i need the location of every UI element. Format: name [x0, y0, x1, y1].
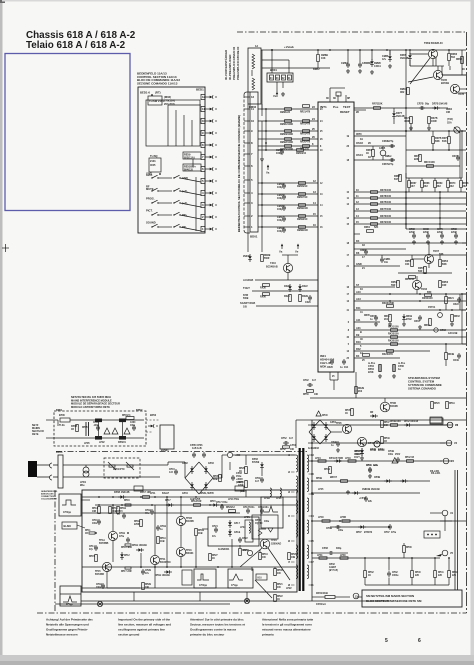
- resistor RM6B/10K: [317, 50, 319, 54]
- svg-text:RP52: RP52: [280, 449, 286, 451]
- wire rail y497: [82, 496, 297, 498]
- svg-text:BP01: BP01: [56, 408, 63, 412]
- svg-text:GPL7: GPL7: [234, 523, 241, 525]
- svg-text:100R: 100R: [431, 121, 437, 123]
- svg-text:RP41: RP41: [438, 571, 444, 574]
- wire sec row V2 y461: [312, 460, 442, 462]
- svg-text:220R: 220R: [134, 524, 140, 526]
- capacitor CP22: [238, 538, 242, 540]
- svg-text:GR05: GR05: [379, 148, 386, 150]
- svg-text:100n: 100n: [130, 425, 136, 427]
- wire bottom rail y601: [81, 600, 390, 602]
- wire right link verticals: [461, 131, 463, 178]
- wire row y150 right: [406, 149, 466, 151]
- svg-text:BC63B: BC63B: [390, 406, 398, 408]
- wire vertical right x460 low: [459, 294, 461, 310]
- svg-text:+300V: +300V: [236, 479, 243, 481]
- wire A13 row: [354, 300, 466, 302]
- svg-text:RP36: RP36: [277, 570, 283, 572]
- svg-text:DR7B 1N4148: DR7B 1N4148: [432, 103, 448, 106]
- svg-text:SISTEMA COMANDO: SISTEMA COMANDO: [408, 387, 437, 391]
- svg-text:CP02: CP02: [303, 380, 309, 382]
- svg-text:CP1B: CP1B: [160, 526, 166, 528]
- svg-text:S2000AD: S2000AD: [271, 543, 281, 546]
- svg-text:1R: 1R: [71, 429, 74, 431]
- svg-text:3P: 3P: [347, 96, 350, 100]
- capacitor CR22 right col: [457, 298, 461, 300]
- diode DR65 1N4148: [409, 50, 411, 54]
- svg-text:LP3B: LP3B: [340, 517, 346, 519]
- svg-text:RM1B/1D: RM1B/1D: [297, 207, 308, 210]
- resistor RP25 22K: [239, 549, 242, 556]
- ground sym row: [261, 157, 263, 159]
- svg-text:CR08//27p: CR08//27p: [382, 141, 394, 143]
- resistor RR20/470: [303, 138, 310, 141]
- svg-text:RK77/100: RK77/100: [380, 208, 392, 211]
- svg-text:DR77: DR77: [396, 113, 403, 115]
- transistor TR03: [412, 280, 421, 289]
- svg-text:RP15: RP15: [89, 556, 95, 558]
- svg-text:IC05: IC05: [150, 163, 156, 167]
- LDR RY02: [454, 127, 460, 133]
- wire row y527 sub: [330, 526, 390, 528]
- wire IC pin 12 row: [354, 203, 466, 205]
- svg-text:LP2B: LP2B: [264, 498, 270, 500]
- netzfilter dashed box: [54, 411, 146, 446]
- resistor RK25 47K: [363, 354, 370, 357]
- svg-text:150u: 150u: [236, 476, 242, 478]
- svg-text:1KB: 1KB: [160, 541, 165, 543]
- svg-text:RP34: RP34: [262, 553, 268, 556]
- svg-text:B17: B17: [394, 179, 399, 181]
- transistor TP15 BC546B: [102, 562, 111, 571]
- svg-text:4x1N4003: 4x1N4003: [308, 447, 320, 450]
- resistor RX06: [263, 293, 270, 296]
- wire AU-RGB: [255, 279, 318, 281]
- svg-text:CP41: CP41: [366, 464, 372, 467]
- svg-text:RR54: RR54: [442, 260, 449, 263]
- wire D9 row: [354, 336, 466, 338]
- transistor TP05: [342, 424, 351, 433]
- svg-text:D10: D10: [356, 340, 361, 344]
- capacitor CP10 10n: [260, 509, 264, 511]
- svg-text:AU-RGB: AU-RGB: [243, 278, 253, 282]
- capacitor CM1B/100p: [282, 184, 286, 186]
- transistor TP11 BC327/40: [150, 555, 159, 564]
- coil LP43 row: [348, 460, 356, 462]
- svg-text:DP17: DP17: [165, 500, 171, 502]
- frame left dash-dot line lower: [54, 490, 56, 613]
- capacitor CP48 1u: [336, 442, 340, 444]
- diode DP15: [213, 503, 216, 507]
- wire IC pin 10 row: [354, 191, 466, 193]
- svg-text:RM22/100K: RM22/100K: [280, 141, 293, 144]
- svg-text:1R: 1R: [85, 533, 88, 535]
- capacitor CR72: [456, 156, 460, 158]
- diode 1N4148 vertical: [248, 256, 252, 259]
- small box PD: [430, 417, 442, 423]
- wire pin D6 row: [354, 254, 466, 256]
- wire mains input lower: [46, 437, 56, 439]
- svg-text:DP40: DP40: [322, 414, 328, 417]
- svg-text:47u: 47u: [145, 512, 149, 515]
- svg-text:52K: 52K: [378, 103, 383, 106]
- svg-text:DP4B/10R: DP4B/10R: [390, 420, 401, 423]
- resistor RP36 vertical: [403, 546, 406, 553]
- svg-text:RP49: RP49: [384, 437, 390, 440]
- wire box bottom drops: [133, 592, 135, 601]
- svg-text:1K: 1K: [239, 471, 242, 473]
- svg-text:TR7B: TR7B: [458, 94, 464, 96]
- svg-text:D11: D11: [356, 306, 361, 310]
- diode DP1B 1N4148 top: [120, 495, 123, 499]
- svg-text:TP1B: TP1B: [186, 518, 192, 520]
- resistor RX30: [263, 284, 270, 287]
- svg-text:CR22: CR22: [453, 304, 459, 306]
- resistor RM17/1D: [299, 193, 306, 196]
- svg-text:CP1B: CP1B: [96, 584, 102, 586]
- wire A01 row: [354, 329, 466, 331]
- svg-text:6RB: 6RB: [213, 479, 218, 481]
- svg-text:12v: 12v: [382, 59, 387, 61]
- junction dots vstab extra: [271, 49, 273, 51]
- terminal circle rail 601: [244, 598, 249, 603]
- diode DP17 mid: [168, 503, 171, 507]
- IF coil connector box: [248, 48, 261, 104]
- wire TCHT: [252, 290, 318, 292]
- wire row y166 right: [406, 165, 460, 167]
- svg-text:BLOC SECTEUR SM/SEZIONE RETE S: BLOC SECTEUR SM/SEZIONE RETE SM: [366, 599, 422, 603]
- resistor RR75 B2K: [419, 155, 422, 162]
- svg-text:(Y02): (Y02): [447, 119, 453, 121]
- svg-text:RR52: RR52: [391, 282, 398, 284]
- wire inside bottom: [82, 587, 107, 589]
- svg-text:220u: 220u: [437, 232, 443, 234]
- control pin 12 with connector: [201, 94, 205, 99]
- bracket dashed boundary control section: [243, 95, 245, 230]
- svg-text:52K: 52K: [374, 227, 379, 229]
- svg-text:Attention! Sur le côté primair: Attention! Sur le côté primaire du bloc: [190, 618, 244, 622]
- svg-text:RM17/1D: RM17/1D: [297, 196, 308, 199]
- svg-text:B2K: B2K: [414, 159, 419, 161]
- wire filter bottom internal: [56, 437, 144, 439]
- node V5 circle: [442, 550, 448, 556]
- svg-text:CP01: CP01: [93, 422, 99, 424]
- capacitor CR16: [418, 316, 422, 318]
- wire sec row V4 y425: [312, 424, 447, 426]
- wire left column vertical2: [261, 160, 263, 232]
- svg-text:RP26: RP26: [291, 554, 297, 556]
- svg-text:CP33: CP33: [322, 548, 329, 550]
- svg-text:le tensioni e gli oscillogramm: le tensioni e gli oscillogrammi sono: [262, 623, 312, 627]
- control inner routing box: [146, 100, 200, 146]
- resistor RK73/100: [371, 217, 378, 220]
- capacitor CM17/100p: [282, 217, 286, 219]
- svg-text:RR50/1K: RR50/1K: [405, 279, 415, 281]
- coil LP05: [95, 419, 102, 423]
- main cap CP03 150u: [229, 462, 231, 470]
- svg-text:RP50: RP50: [303, 394, 309, 396]
- svg-text:PROG.: PROG.: [146, 197, 155, 201]
- resistor RP12 10R: [194, 504, 201, 507]
- small bridge GP01: [309, 420, 320, 432]
- coil LP26: [280, 488, 281, 496]
- svg-text:GP03: GP03: [208, 463, 214, 465]
- svg-text:RM13/10: RM13/10: [296, 152, 307, 155]
- svg-text:Ua: Ua: [266, 171, 270, 175]
- svg-text:RR7A/10K: RR7A/10K: [424, 161, 435, 164]
- wire mains N: [37, 476, 50, 478]
- resistor RX28: [299, 295, 302, 302]
- svg-text:TP1A: TP1A: [99, 539, 105, 542]
- svg-text:220u: 220u: [451, 232, 457, 234]
- svg-text:Ue: Ue: [295, 250, 299, 254]
- svg-text:DP42 1N4148: DP42 1N4148: [404, 420, 419, 423]
- crystal GR05 8MHz: [380, 150, 386, 156]
- svg-text:3x1N4001: 3x1N4001: [218, 548, 230, 551]
- svg-text:RR01/470: RR01/470: [300, 133, 311, 136]
- svg-text:RR70: RR70: [450, 183, 456, 185]
- svg-text:RR53: RR53: [442, 282, 449, 284]
- junction dots rows: [405, 191, 407, 193]
- svg-text:CP22: CP22: [242, 538, 248, 540]
- svg-text:22K: 22K: [415, 575, 419, 577]
- svg-text:RP45: RP45: [345, 409, 351, 412]
- svg-text:BC546B: BC546B: [95, 573, 104, 576]
- resistor RP39: [329, 467, 332, 474]
- wire row RM17/1D: [258, 193, 318, 195]
- svg-text:1nB 1nB: 1nB 1nB: [192, 448, 202, 450]
- svg-text:220K: 220K: [368, 372, 374, 374]
- resistor RK33/100: [391, 336, 398, 339]
- svg-text:RP16: RP16: [124, 500, 130, 502]
- svg-text:10B: 10B: [291, 557, 295, 559]
- resistor RR14 B2K: [429, 319, 432, 326]
- coil LP40: [322, 520, 330, 522]
- svg-text:RR01/470: RR01/470: [300, 123, 311, 126]
- resistor RK38 right col: [445, 353, 448, 360]
- wire m-pos down: [379, 364, 381, 372]
- wire vertical x406 ladder to caps: [405, 178, 407, 229]
- capacitor CM16/100p: [282, 206, 286, 208]
- svg-text:TP04: TP04: [271, 539, 277, 542]
- control pin 5 with connector: [201, 178, 205, 183]
- transistor TP04 S2000AD: [260, 539, 270, 549]
- resistor RM2B/1D: [299, 226, 306, 229]
- svg-text:RK35/100: RK35/100: [388, 341, 399, 343]
- zener diode RM9B: [371, 50, 373, 60]
- svg-text:TEXT: TEXT: [343, 105, 351, 109]
- svg-text:RK3B: RK3B: [448, 354, 454, 356]
- capacitor CP1B 100n low: [101, 584, 105, 586]
- svg-text:1/B: 1/B: [243, 306, 247, 309]
- resistor RR68 ladder: [421, 178, 423, 180]
- svg-text:RP21: RP21: [277, 584, 283, 586]
- svg-text:INT0: INT0: [356, 132, 362, 136]
- resistor RR67 ladder: [408, 178, 410, 180]
- wire row to IC pin 24: [258, 120, 318, 122]
- mains plug: [28, 461, 37, 477]
- wire row y273: [398, 272, 452, 274]
- resistor RP17 10R: [143, 496, 150, 499]
- svg-text:DP45: DP45: [355, 450, 361, 453]
- control pin 9 with connector: [201, 130, 205, 135]
- wire TR0B base diagonal: [408, 77, 433, 82]
- scope box waveform B: [228, 569, 253, 588]
- pin INT0 19: [354, 135, 406, 137]
- svg-text:RK76/100: RK76/100: [380, 195, 392, 198]
- svg-text:1N414B: 1N414B: [400, 57, 409, 60]
- svg-text:RR67: RR67: [411, 183, 417, 185]
- resistor RP22 1K: [274, 595, 277, 602]
- resistor RR79 1K: [448, 137, 451, 144]
- svg-text:CM86: CM86: [382, 56, 389, 58]
- junction dots primary: [98, 496, 100, 498]
- wire resistor ladder header: [406, 177, 462, 179]
- control pin 11 with connector: [201, 106, 205, 111]
- diode DP1B low: [166, 570, 169, 574]
- svg-text:RP05: RP05: [238, 482, 244, 484]
- svg-text:1K: 1K: [368, 575, 371, 577]
- wire sec row V3 y443: [312, 442, 445, 444]
- ground syms secondary: [347, 490, 349, 492]
- resistor RP15 4K7: [95, 555, 98, 562]
- resistor RR71/52K: [374, 107, 381, 110]
- transistor TR05 BC548: [433, 70, 442, 79]
- svg-text:BP02: BP02: [150, 414, 157, 417]
- svg-text:CP24: CP24: [212, 525, 218, 528]
- node U1 circle: [442, 510, 448, 516]
- svg-text:misurati verso massa alimentat: misurati verso massa alimentatore: [262, 628, 311, 632]
- wire sec row LP40 y521: [312, 520, 466, 522]
- svg-text:RETE: RETE: [32, 433, 39, 436]
- svg-text:OP10: OP10: [255, 520, 261, 522]
- capacitor CP24 47u: [214, 528, 218, 530]
- resistor RR21 right col: [445, 297, 448, 304]
- svg-text:RP13 4KB: RP13 4KB: [121, 546, 132, 549]
- wire row y66: [410, 65, 436, 67]
- transistor TP48 BC639: [380, 402, 390, 412]
- svg-text:D4: D4: [356, 239, 360, 243]
- svg-text:LP40: LP40: [318, 516, 324, 519]
- svg-text:RP42 1R: RP42 1R: [405, 456, 414, 459]
- resistor RK77/100: [371, 210, 378, 213]
- resistor RP19 right: [446, 402, 449, 409]
- resistor RP1B 220R: [140, 520, 143, 527]
- svg-text:TR03: TR03: [421, 288, 428, 291]
- resistor RK31/100: [391, 329, 398, 332]
- node V2 circle: [443, 458, 449, 464]
- connector bar mains: [58, 455, 63, 488]
- node 13 circle: [353, 593, 359, 599]
- svg-text:PREAMPLIFICATORE IR: PREAMPLIFICATORE IR: [236, 46, 240, 80]
- svg-text:RR14: RR14: [424, 324, 430, 327]
- svg-text:C/RM6B: C/RM6B: [362, 63, 371, 65]
- svg-text:SCART RGB: SCART RGB: [240, 301, 255, 305]
- svg-text:RR67: RR67: [394, 176, 401, 178]
- resistor RM22/100K: [285, 138, 292, 141]
- resistor RP20 12: [229, 510, 236, 513]
- wire top bus secondary: [262, 67, 310, 69]
- svg-text:(M02): (M02): [164, 95, 171, 99]
- svg-text:BC36B: BC36B: [186, 521, 194, 523]
- svg-text:100p: 100p: [277, 186, 283, 189]
- svg-text:CP03: CP03: [236, 473, 243, 475]
- svg-text:CR16: CR16: [414, 321, 420, 323]
- svg-text:RM3B: RM3B: [264, 255, 271, 257]
- resistor RP06 6R8: [219, 475, 222, 482]
- svg-text:RK2B: RK2B: [358, 388, 364, 390]
- capacitor CK70 220u: [441, 231, 443, 234]
- junction dots res bank: [364, 557, 366, 559]
- svg-text:100u: 100u: [264, 521, 270, 523]
- resistor RK29 2K2: [355, 387, 358, 394]
- capacitor CP1B 1u: [156, 526, 160, 528]
- wire to U1: [430, 512, 442, 514]
- svg-text:A10: A10: [356, 290, 361, 294]
- svg-text:CK39: CK39: [453, 360, 459, 362]
- resistor RP1B 10A left: [117, 507, 120, 514]
- wire verticals to bottom rail: [140, 553, 142, 568]
- svg-text:CP17/100n: CP17/100n: [243, 507, 255, 509]
- VDR triangle 2: [112, 428, 118, 434]
- svg-text:BC55BB: BC55BB: [99, 543, 109, 545]
- svg-text:DP03: DP03: [252, 459, 259, 461]
- svg-text:B: B: [360, 331, 362, 334]
- wire IC pin 11 row: [354, 197, 466, 199]
- arrow Ue node: [297, 245, 299, 249]
- wire filter top internal: [70, 419, 144, 421]
- circle OP33: [247, 550, 252, 555]
- svg-text:RR66: RR66: [451, 54, 458, 56]
- svg-text:9Bu: 9Bu: [80, 485, 85, 487]
- svg-text:CP04: CP04: [368, 365, 375, 368]
- svg-text:GPLB: GPLB: [234, 532, 241, 534]
- wire vertical secondary bus right pair: [454, 470, 456, 590]
- svg-text:4B2: 4B2: [400, 91, 405, 94]
- VDR triangle 3: [124, 428, 130, 434]
- svg-text:RP36: RP36: [406, 547, 412, 549]
- diode DP41: [336, 459, 339, 463]
- wire BM02 box down: [261, 50, 263, 110]
- wire rail y420: [310, 419, 466, 421]
- svg-text:OP46: OP46: [368, 442, 375, 445]
- svg-text:RP0B: RP0B: [71, 426, 78, 428]
- svg-text:A/2u: A/2u: [373, 464, 378, 467]
- svg-text:primaire du bloc secteur: primaire du bloc secteur: [190, 633, 225, 637]
- resistor RP14 1K8: [109, 507, 112, 514]
- svg-text:RM16/1D: RM16/1D: [297, 185, 308, 188]
- resistor RK26/47K: [387, 350, 394, 353]
- svg-text:TR07: TR07: [433, 250, 440, 253]
- resistor RR52 56R: [397, 281, 400, 288]
- svg-text:TCHT: TCHT: [243, 286, 250, 290]
- resistor RR67 1K: [372, 150, 375, 157]
- svg-text:DP1B 1N414B: DP1B 1N414B: [155, 574, 170, 577]
- resistor RK74/100: [371, 191, 378, 194]
- capacitor CP01 100n: [96, 426, 100, 428]
- svg-text:RX30: RX30: [260, 288, 267, 290]
- wire res bank bottom rail: [365, 584, 449, 586]
- svg-text:D4: D4: [356, 354, 360, 358]
- capacitor CM82: [364, 250, 368, 252]
- primary section outer box: [82, 490, 297, 592]
- wire TR7B out: [459, 88, 466, 90]
- wire vertical x440 rows link: [439, 192, 441, 229]
- svg-text:CP4B: CP4B: [370, 448, 376, 451]
- capacitor C200 100n: [132, 426, 136, 428]
- terminal circle ground rail: [97, 601, 102, 606]
